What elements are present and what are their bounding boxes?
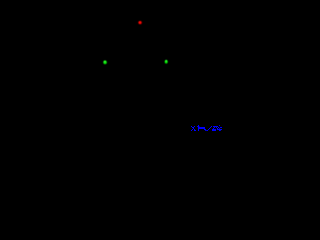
green LED light (left)	[102, 59, 108, 65]
blue watermark text bottom-right	[191, 125, 222, 131]
glyph X	[191, 126, 192, 127]
word bar (m-like)	[199, 127, 205, 129]
glyph W/X cluster	[217, 126, 218, 127]
glyph t with flag	[197, 126, 198, 127]
red LED light	[137, 20, 143, 26]
slash	[207, 130, 208, 131]
green LED light (right)	[163, 59, 169, 65]
glyph Z	[213, 126, 217, 127]
